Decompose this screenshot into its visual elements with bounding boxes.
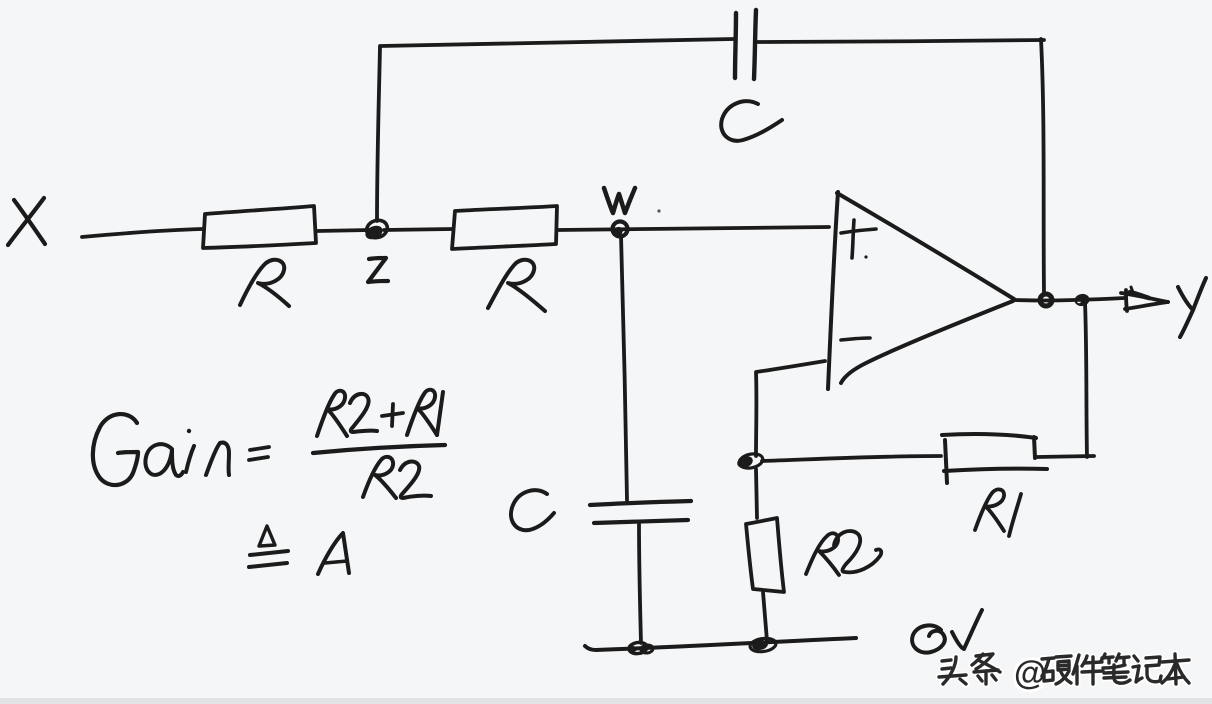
label X (input) (8, 198, 45, 245)
wire node Z up to feedback (377, 47, 380, 221)
formula fraction bar (313, 445, 445, 453)
wire Z to resistor R (right) (384, 229, 453, 230)
wire X to resistor R (left) (82, 229, 202, 237)
label 0V (912, 610, 982, 653)
wire junction to R2 (756, 469, 757, 518)
node feedback junction (736, 452, 765, 470)
resistor R (left) (203, 206, 316, 248)
node Z (363, 218, 389, 242)
wire op-amp inverting input to junction (756, 361, 825, 456)
wire feedback top left segment (380, 39, 734, 46)
formula Gain = (93, 414, 269, 485)
op-amp U1 body (828, 192, 1014, 389)
capacitor C (feedback) (735, 10, 756, 79)
op-amp + input marking (841, 220, 876, 259)
wire R to node Z (317, 230, 370, 231)
wire node W down to capacitor C (621, 235, 627, 500)
node output to R1 branch (1074, 293, 1091, 307)
formula numerator R2+R1 (317, 390, 443, 436)
wire feedback top right segment (757, 40, 1044, 42)
arrow to Y (1121, 287, 1168, 311)
wire output to Y (1014, 298, 1124, 300)
label R (right resistor) (488, 260, 545, 311)
watermark 头条 @硬件笔记本 (939, 654, 1189, 691)
ground junction (capacitor) (628, 641, 653, 654)
node op-amp output (1040, 294, 1052, 306)
label R (left resistor) (240, 260, 289, 306)
op-amp - input marking (841, 338, 870, 340)
label R2 (806, 531, 881, 575)
capacitor C (to ground) (590, 501, 691, 523)
formula denominator R2 (363, 457, 431, 498)
label W (604, 188, 635, 213)
wire R2 to ground rail (763, 592, 767, 641)
wire capacitor to ground rail (639, 524, 641, 643)
label Z (368, 258, 388, 282)
wire output branch vertical (1085, 302, 1087, 457)
wire feedback down to output node (1041, 39, 1044, 293)
wire junction to R1 (762, 456, 941, 461)
label R1 (975, 489, 1021, 536)
resistor R (right) (452, 206, 557, 249)
resistor R1 (942, 434, 1047, 483)
wire R1 to output branch (1037, 456, 1094, 457)
ground rail 0V (585, 638, 856, 650)
formula defined-as A (249, 526, 349, 574)
ground junction (R2) (749, 637, 777, 653)
resistor R2 (746, 518, 784, 592)
node W (612, 222, 628, 237)
label C (feedback capacitor) (721, 101, 782, 141)
wire R to node W and op-amp + input (558, 227, 829, 230)
label Y (output) (1178, 278, 1206, 337)
label C (ground capacitor) (511, 490, 554, 530)
